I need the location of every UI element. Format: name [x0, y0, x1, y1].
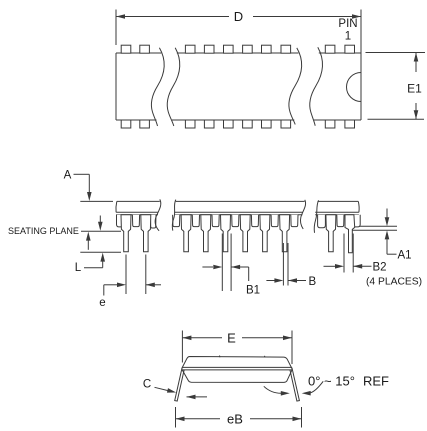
- svg-text:E: E: [227, 331, 236, 346]
- svg-text:E1: E1: [407, 82, 422, 96]
- svg-text:C: C: [143, 379, 151, 391]
- pin tip reference line: [80, 251, 121, 253]
- dimension B: extension lines: [283, 243, 288, 286]
- dimension E1: label E1: [407, 82, 422, 96]
- dimension C: label C: [143, 379, 151, 391]
- svg-text:1: 1: [345, 31, 351, 43]
- svg-text:SEATING PLANE: SEATING PLANE: [8, 226, 79, 236]
- dimension B2: arrows: [324, 264, 372, 269]
- svg-text:B: B: [309, 276, 317, 288]
- svg-text:0° ~ 15°: 0° ~ 15°: [308, 374, 355, 389]
- svg-text:D: D: [234, 9, 243, 24]
- side view: right body end lobe: [352, 215, 360, 227]
- lead angle label: [308, 374, 389, 389]
- svg-text:B1: B1: [246, 285, 260, 297]
- dimension A1: arrows and leader: [385, 209, 397, 255]
- dimension B2: note (4 PLACES): [366, 277, 422, 288]
- end view: package body (hexagonal profile): [182, 357, 292, 383]
- reference line aligned with package top: [80, 200, 113, 202]
- seating plane line: [81, 230, 121, 232]
- side view: break between group2 and group3: [301, 200, 319, 233]
- dimension D: right extension line: [360, 10, 362, 54]
- dimension B2: label B2: [373, 262, 387, 274]
- top view: left break line pair: [151, 48, 179, 126]
- end view: small mold marks on top edge: [220, 356, 266, 358]
- label A leader and arrow: [64, 170, 92, 202]
- dimension D: left extension line: [115, 10, 117, 46]
- svg-text:A1: A1: [398, 250, 412, 262]
- svg-text:eB: eB: [227, 412, 243, 427]
- dimension E: dimension line with arrows: [182, 336, 292, 341]
- dimension B1: arrows: [202, 265, 248, 281]
- dimension D: dimension line with arrows: [116, 14, 361, 19]
- svg-text:(4 PLACES): (4 PLACES): [366, 277, 422, 288]
- svg-text:A: A: [64, 170, 72, 182]
- end view: mold parting double line: [182, 367, 292, 370]
- dimension B: label B: [309, 276, 317, 288]
- dimension E1: top extension line: [366, 52, 426, 54]
- label L leader and arrow: [75, 253, 105, 274]
- side view: front row pins with legs: [121, 215, 336, 252]
- seating plane upper arrow: [98, 216, 103, 231]
- label PIN 1: [338, 18, 357, 43]
- side view: break between group1 and group2: [155, 199, 176, 230]
- top view: pin-1 end orientation notch (half circle): [347, 73, 362, 102]
- seating plane lower arrow: [86, 232, 91, 250]
- dimension B1: label B1: [246, 285, 260, 297]
- top view: bottom row pin stubs: [121, 120, 354, 128]
- svg-text:e: e: [99, 297, 105, 309]
- svg-text:REF: REF: [363, 374, 389, 389]
- dimension eB: label eB: [227, 412, 243, 427]
- dimension A1: standoff reference lines: [353, 226, 398, 230]
- dimension B2: extension lines: [344, 234, 353, 273]
- side view: left body end lobe: [117, 215, 127, 227]
- svg-text:B2: B2: [373, 262, 387, 274]
- svg-text:L: L: [75, 262, 82, 274]
- dimension e: extension lines: [126, 255, 146, 295]
- dimension A1: label A1: [398, 250, 412, 262]
- dimension E: extension lines: [182, 331, 292, 365]
- dimension B1: extension lines: [222, 234, 231, 292]
- dimension e: label e: [99, 297, 105, 309]
- dimension E1: dimension line with arrows: [414, 53, 419, 120]
- lead angle arcs 0-15 deg: [264, 381, 323, 395]
- svg-text:PIN: PIN: [338, 18, 357, 30]
- top view: right break line pair: [289, 47, 323, 125]
- top view: package body outline: [116, 53, 361, 120]
- dimension E1: bottom extension line: [368, 118, 425, 120]
- side view: package body slab (broken into 3 segments): [116, 201, 359, 214]
- side view: corner pin (B2 pin) at right end: [345, 215, 355, 253]
- dimension B: arrows: [266, 278, 306, 283]
- top view: top row pin stubs: [121, 45, 354, 53]
- dimension C: leader arrows: [155, 387, 208, 399]
- dimension eB: extension lines: [176, 407, 302, 428]
- label SEATING PLANE: [8, 226, 79, 236]
- end view: right lead: [290, 368, 300, 401]
- dimension e: arrows: [104, 283, 161, 296]
- dimension D: label D: [234, 9, 243, 24]
- dimension eB: dimension line with arrows: [176, 417, 302, 422]
- side view: far row pins (back row, seen between front pins): [132, 215, 344, 228]
- side view: G3 left edge lobe: [318, 215, 326, 228]
- end view: left lead: [175, 368, 185, 401]
- dimension E: label E: [227, 331, 236, 346]
